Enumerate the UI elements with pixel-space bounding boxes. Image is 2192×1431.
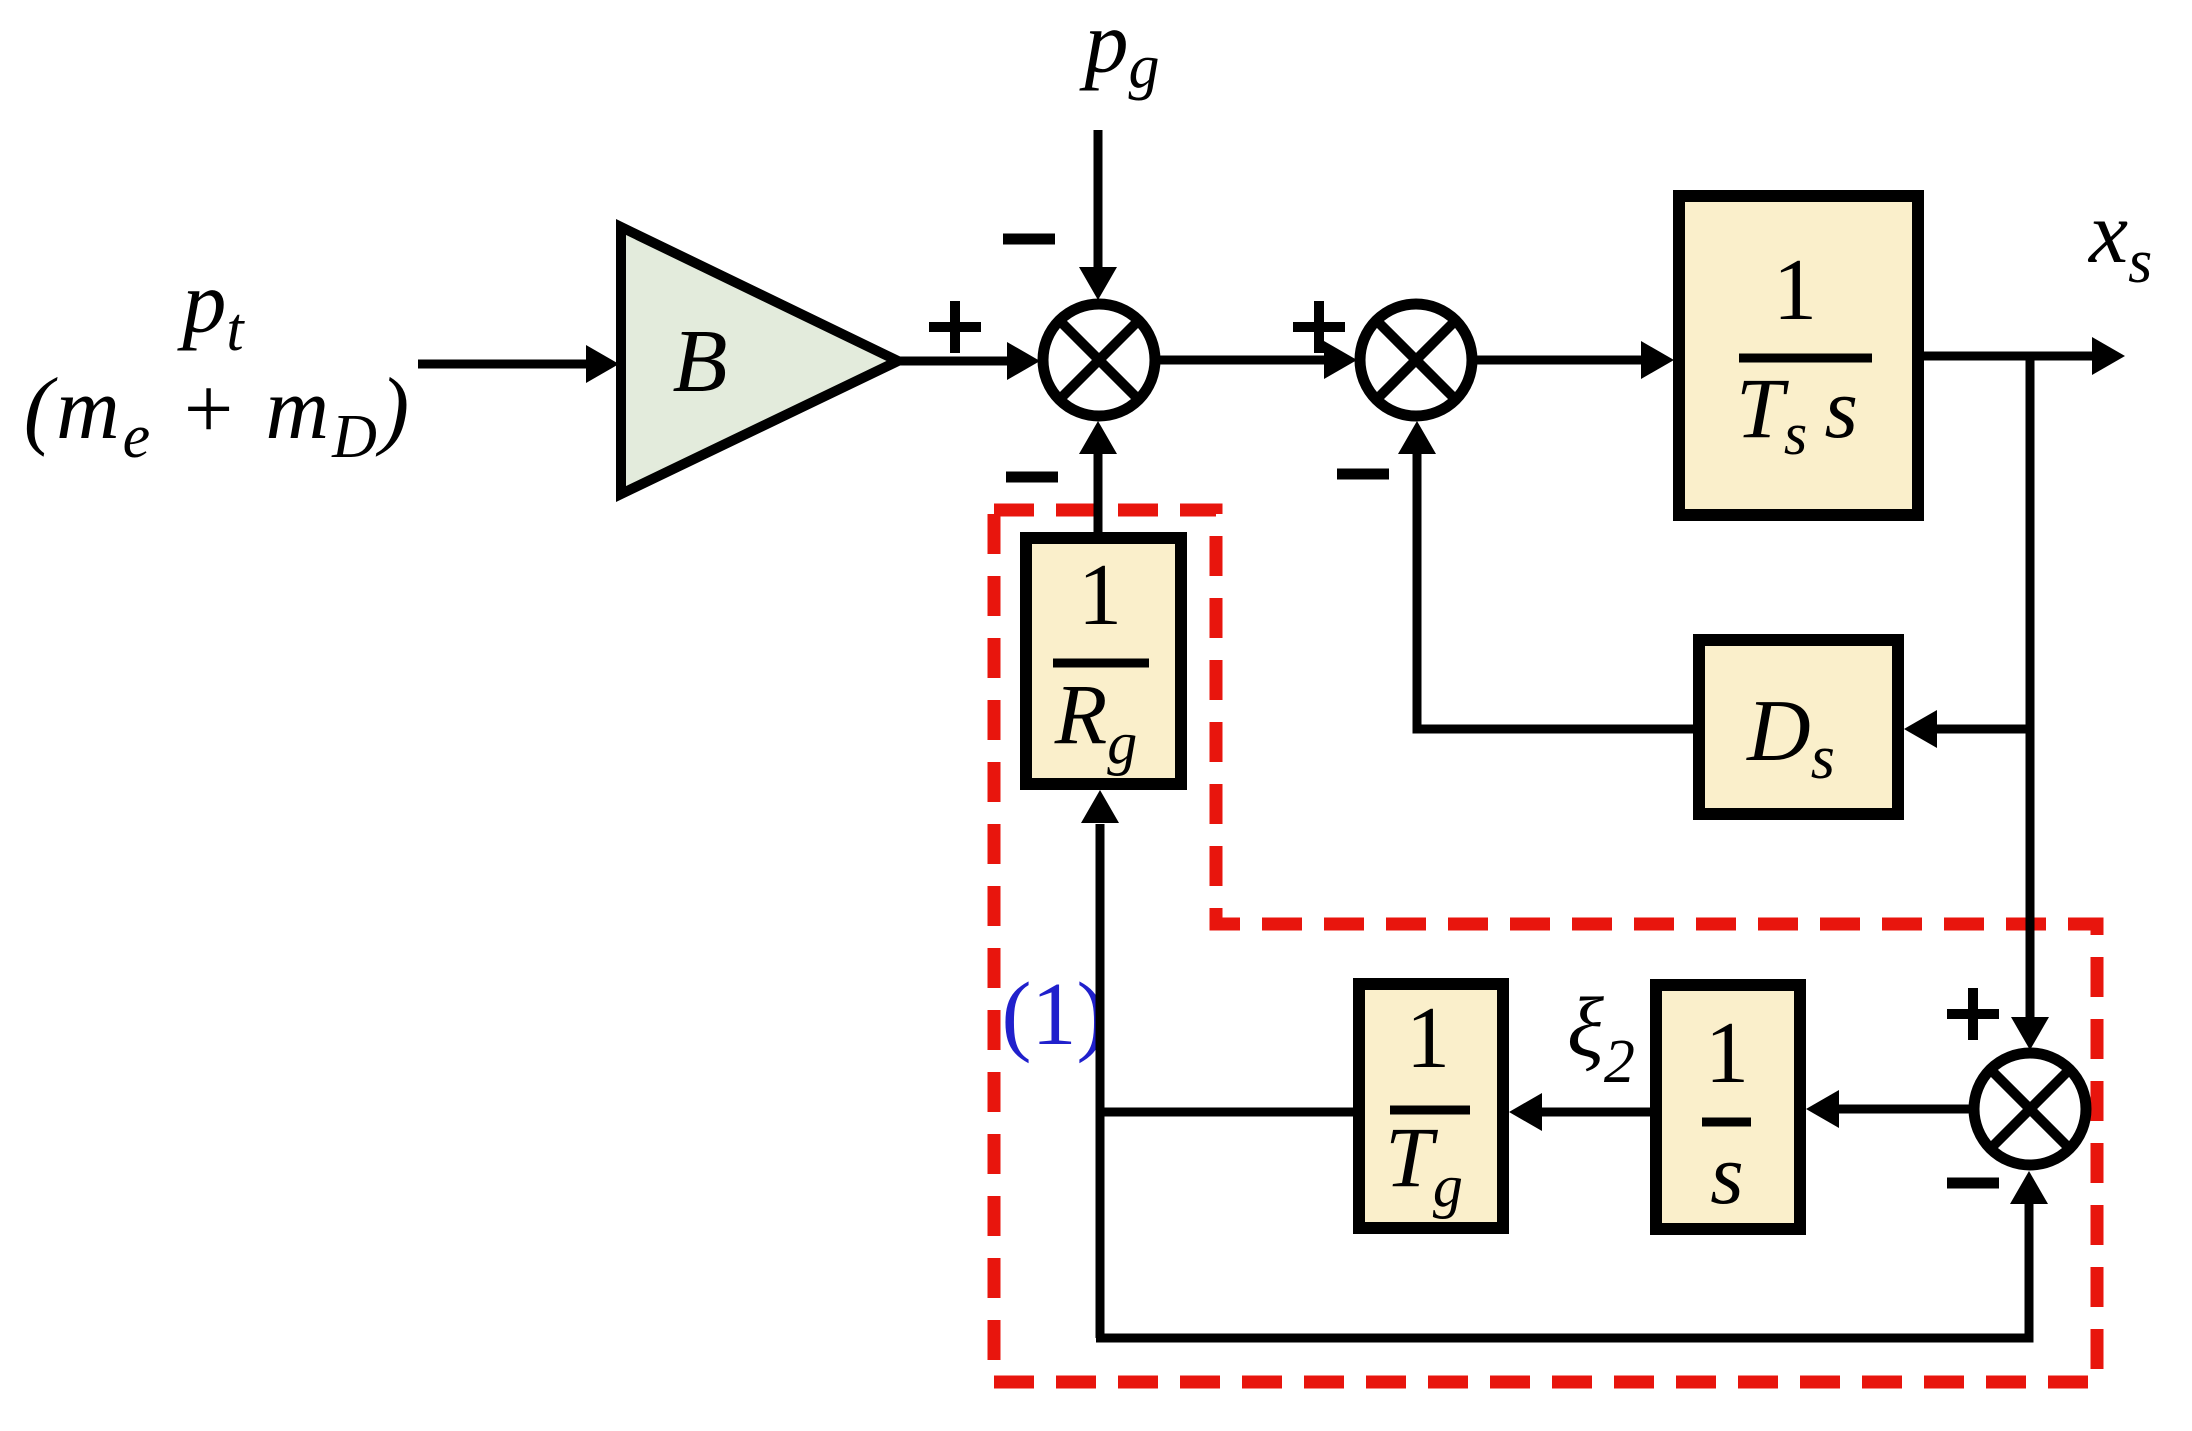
sign + at junction 2 left bbox=[1293, 301, 1345, 353]
svg-text:B: B bbox=[673, 312, 728, 411]
wire down-left vertical bbox=[1096, 824, 1105, 1338]
output wire xs bbox=[1924, 352, 2092, 361]
block 1/(Ts s) bbox=[1679, 196, 1918, 515]
sign - above junction 1 bbox=[1003, 234, 1055, 245]
wire Ds output to junction 2 bbox=[1417, 452, 1693, 729]
block 1/Tg bbox=[1359, 984, 1503, 1228]
wire junction 3 to 1/s bbox=[1838, 1105, 1974, 1114]
feedback vertical wire from output bbox=[2026, 356, 2035, 1018]
sign + above junction 3 bbox=[1947, 988, 1999, 1040]
wire input arrow bbox=[418, 360, 586, 369]
wire from 1/Tg output left bbox=[1096, 1108, 1353, 1117]
block 1/Rg bbox=[1026, 538, 1181, 784]
sign + at junction 1 left bbox=[929, 301, 981, 353]
summing junction 3 bbox=[1974, 1053, 2086, 1165]
wire pg down arrow bbox=[1094, 130, 1103, 268]
svg-text:1: 1 bbox=[1406, 990, 1450, 1087]
bottom feedback wire bbox=[1096, 1200, 2029, 1338]
sign - below junction 1 bbox=[1006, 472, 1058, 483]
red dashed region boundary bbox=[994, 510, 2097, 1382]
wire junction2 to Ts block bbox=[1472, 356, 1642, 365]
summing junction 2 bbox=[1360, 304, 1472, 416]
wire branch to Ds block bbox=[1936, 725, 2030, 734]
svg-text:(1): (1) bbox=[1002, 965, 1107, 1064]
svg-text:1: 1 bbox=[1078, 547, 1122, 644]
wire triangle to summing junction 1 bbox=[898, 357, 1008, 366]
block 1/s bbox=[1656, 985, 1800, 1229]
sign - below junction 2 bbox=[1337, 469, 1389, 480]
wire 1/s to 1/Tg bbox=[1540, 1108, 1650, 1117]
wire 1/Rg up to junction 1 bbox=[1094, 450, 1103, 532]
svg-text:s: s bbox=[1710, 1126, 1743, 1222]
summing junction 1 bbox=[1043, 304, 1155, 416]
svg-text:1: 1 bbox=[1705, 1005, 1749, 1102]
sign - below junction 3 bbox=[1947, 1178, 1999, 1189]
wire junction1 to junction2 bbox=[1155, 356, 1325, 365]
wire up into 1/Rg bottom bbox=[1081, 790, 1119, 823]
svg-text:1: 1 bbox=[1773, 242, 1817, 339]
gain triangle B bbox=[621, 227, 898, 494]
block Ds bbox=[1699, 640, 1898, 814]
